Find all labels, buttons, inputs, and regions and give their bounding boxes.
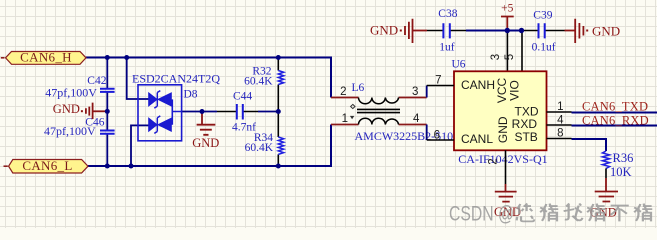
svg-text:+5: +5	[501, 2, 513, 14]
pin 6 CANL	[427, 139, 454, 141]
svg-text:4: 4	[413, 113, 420, 125]
svg-text:3: 3	[490, 54, 502, 60]
junction CANL/D8	[129, 164, 134, 169]
svg-text:ESD2CAN24T2Q: ESD2CAN24T2Q	[132, 71, 220, 85]
svg-text:RXD: RXD	[512, 117, 538, 131]
resistor R32	[244, 58, 284, 112]
svg-text:2: 2	[340, 86, 346, 98]
wire segments	[427, 30, 466, 32]
bottom TVS pair	[149, 116, 172, 133]
svg-text:8: 8	[557, 128, 563, 140]
junction VIO pin 5	[519, 28, 524, 33]
svg-text:1: 1	[557, 101, 563, 113]
char cai 1	[540, 204, 558, 222]
svg-text:CAN6_RXD: CAN6_RXD	[582, 113, 649, 127]
internal right connection	[172, 99, 181, 124]
svg-text:10K: 10K	[610, 165, 632, 179]
wire CANL rail	[88, 125, 331, 167]
svg-text:GND: GND	[370, 23, 398, 38]
char cai 2	[587, 204, 605, 222]
svg-text:60.4K: 60.4K	[244, 76, 273, 88]
svg-text:60.4K: 60.4K	[245, 142, 274, 154]
svg-text:U6: U6	[452, 59, 466, 71]
svg-text:CA-IF1042VS-Q1: CA-IF1042VS-Q1	[458, 152, 547, 166]
pin 1 TXD	[547, 111, 572, 113]
svg-text:GND: GND	[496, 116, 510, 143]
svg-text:VIO: VIO	[508, 80, 522, 101]
svg-text:CANL: CANL	[461, 132, 493, 146]
wire GND stub to cap column	[93, 110, 107, 112]
svg-text:3: 3	[412, 86, 418, 98]
bottom winding	[359, 118, 399, 124]
port CAN6_H	[1, 50, 86, 65]
svg-text:L6: L6	[352, 82, 365, 94]
capacitor C44	[232, 91, 256, 134]
wire STB to R36	[572, 139, 607, 151]
svg-text:5: 5	[504, 54, 516, 60]
char cai 3	[634, 204, 652, 222]
svg-text:C39: C39	[533, 9, 552, 21]
svg-text:CAN6_H: CAN6_H	[20, 50, 72, 65]
ground below U6 pin2	[494, 184, 521, 219]
svg-text:47pf,100V: 47pf,100V	[44, 124, 96, 138]
junction CANL/C46	[105, 164, 110, 169]
svg-text:1: 1	[342, 113, 348, 125]
svg-text:0.1uf: 0.1uf	[532, 41, 556, 53]
resistor R34	[245, 112, 284, 167]
polarity diamond	[351, 104, 355, 108]
wire L6 pin4 to CANL pin	[426, 125, 428, 141]
svg-text:C44: C44	[233, 91, 252, 103]
pins 2,1 (left) and 3,4 (right)	[331, 98, 427, 125]
junction CANH/R32	[276, 55, 281, 60]
char wo	[564, 204, 583, 221]
junction C44/R32/R34	[276, 109, 281, 114]
svg-text:4.7nf: 4.7nf	[232, 122, 256, 134]
capacitor C42	[45, 75, 114, 100]
svg-text:D8: D8	[184, 89, 198, 101]
junction CANL/R34	[276, 164, 281, 169]
svg-text:1uf: 1uf	[439, 41, 455, 53]
wire D8 bottom branch	[131, 125, 149, 166]
top winding	[359, 98, 399, 104]
common-mode choke L6	[331, 82, 461, 143]
wire L6 pin3 to CANH pin	[426, 86, 428, 98]
svg-text:4: 4	[557, 115, 564, 127]
pin 2 GND bottom	[505, 150, 507, 184]
wire TXD net	[572, 112, 657, 114]
ground below R36	[590, 178, 618, 219]
resistor R36	[602, 151, 633, 179]
power port GND top-right	[575, 19, 583, 43]
svg-text:R36: R36	[613, 151, 634, 165]
char bu	[611, 206, 629, 222]
svg-text:7: 7	[435, 75, 441, 87]
svg-text:CSDN @: CSDN @	[449, 203, 514, 226]
svg-text:47pf,100V: 47pf,100V	[45, 85, 97, 99]
power port GND mid-left	[53, 102, 93, 119]
svg-text:CAN6_L: CAN6_L	[22, 158, 72, 173]
wire C42/C46 column	[106, 58, 108, 167]
svg-text:2: 2	[488, 158, 500, 164]
watermark CSDN	[449, 203, 652, 226]
diode array D8 ESD2CAN24T2Q	[132, 71, 220, 141]
junction +5/VCC pin 3	[505, 28, 510, 33]
junction CANH/D8	[124, 55, 129, 60]
junction D8 output/GND	[200, 109, 205, 114]
capacitor C39	[539, 23, 545, 38]
pin 8 STB	[547, 138, 572, 140]
svg-text:STB: STB	[514, 130, 537, 144]
svg-text:CANH: CANH	[461, 78, 495, 92]
capacitor C38	[443, 23, 449, 38]
power port +5	[501, 17, 514, 30]
svg-text:6: 6	[434, 130, 440, 142]
svg-text:CAN6_TXD: CAN6_TXD	[582, 99, 648, 113]
port CAN6_L	[4, 158, 89, 173]
svg-text:C38: C38	[438, 8, 457, 20]
junction CANH/C42	[105, 55, 110, 60]
char nin	[517, 204, 535, 222]
top power rail	[370, 2, 620, 71]
wire RXD net	[572, 125, 657, 127]
capacitor C46	[44, 117, 115, 139]
svg-text:GND: GND	[192, 136, 219, 150]
top TVS pair	[149, 91, 172, 109]
wire D8 output to C44 and R junction	[182, 111, 279, 113]
wire CANH rail	[86, 58, 331, 98]
core	[357, 109, 400, 112]
svg-text:GND: GND	[53, 102, 80, 116]
ground below D8	[192, 112, 219, 151]
pins 3,5 vertical	[507, 31, 522, 72]
pin 7 CANH	[427, 85, 454, 87]
pin 4 RXD	[547, 124, 572, 126]
junction GND/C42/C46	[105, 109, 110, 114]
svg-text:GND: GND	[592, 23, 620, 38]
wire D8 top branch	[127, 58, 149, 100]
polarity triangle	[350, 116, 354, 119]
op part U6 CA-IF1042VS-Q1	[427, 59, 572, 185]
